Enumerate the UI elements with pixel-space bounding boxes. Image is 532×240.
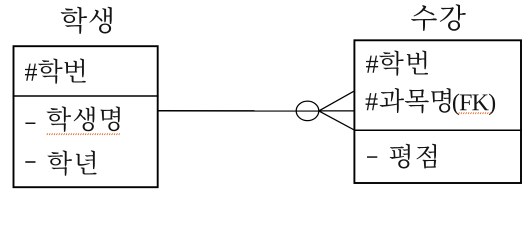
dash bullet before 학년: [25, 161, 35, 163]
text left attr 학생명: [47, 106, 120, 131]
divider line right box: [354, 129, 522, 131]
text right attr 평점: [390, 144, 436, 169]
crow's foot prong bottom: [319, 111, 355, 130]
text title 학생: [61, 7, 112, 34]
divider line left box: [13, 95, 159, 97]
circle (optionality symbol): [296, 101, 319, 121]
crow's foot prong top: [319, 91, 355, 111]
text left attr 학년: [48, 150, 97, 175]
text right attr #과목명(FK): [366, 88, 496, 115]
relationship connector line: [159, 110, 319, 112]
spellcheck squiggle under FK: [459, 112, 491, 114]
dash bullet before 평점: [367, 156, 377, 158]
entity box 학생 (left): [14, 46, 158, 187]
crow's foot prong middle: [319, 110, 355, 112]
text left attr #학번: [25, 59, 86, 84]
text right attr #학번: [366, 51, 428, 76]
text title 수강: [411, 4, 466, 31]
spellcheck squiggle under 학생명: [47, 133, 120, 135]
entity box 수강 (right): [354, 40, 521, 183]
dash bullet before 학생명: [25, 123, 35, 125]
